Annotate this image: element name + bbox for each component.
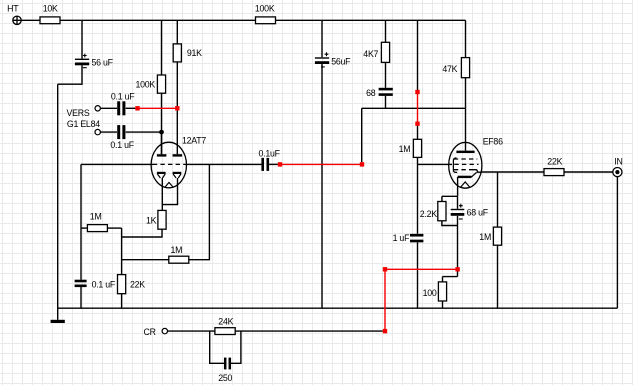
wire 22K R13 to IN terminal xyxy=(564,171,613,173)
node red square R1 right xyxy=(360,162,364,166)
resistor R12 1M xyxy=(493,227,501,245)
svg-text:24K: 24K xyxy=(218,316,233,326)
svg-text:VERS: VERS xyxy=(67,108,90,118)
wire CR terminal to 24K xyxy=(168,330,215,332)
wire 250 cap right bracket xyxy=(231,331,241,363)
svg-text:1 uF: 1 uF xyxy=(393,233,410,243)
wire 47K bottom to anode node xyxy=(465,78,467,109)
terminal CR xyxy=(162,328,167,333)
wire 250 cap left bracket xyxy=(210,331,224,363)
wire 100 resistor bottom to ground rail xyxy=(442,301,444,308)
U2 grid g3 dashed xyxy=(454,169,469,171)
wire 56uF C1 bottom L to left rail xyxy=(58,65,82,84)
red net wires xyxy=(138,92,458,331)
terminal HT xyxy=(13,16,21,24)
svg-text:1M: 1M xyxy=(90,212,102,222)
wire 12AT7 grid to left xyxy=(81,163,153,165)
wire left vertical to ground rail xyxy=(57,84,59,308)
node A junction dot xyxy=(159,130,164,135)
svg-text:0.1 uF: 0.1 uF xyxy=(110,140,134,150)
U2 g3 out step xyxy=(469,170,482,173)
wire 68uF bottom xyxy=(457,216,459,226)
wire drop to 56uF C1 xyxy=(81,20,83,58)
svg-text:1M: 1M xyxy=(171,245,183,255)
resistor R11 2.2K xyxy=(438,202,446,221)
svg-text:10K: 10K xyxy=(43,4,58,14)
capacitor C9 1uF xyxy=(410,235,423,241)
wire cathode to 68uF top xyxy=(457,196,459,209)
capacitor C10 250 xyxy=(225,358,230,370)
U2 shield bracket xyxy=(453,158,457,173)
svg-text:100K: 100K xyxy=(136,80,156,90)
wire G1EL84 terminal to cap CB xyxy=(100,131,117,133)
svg-text:12AT7: 12AT7 xyxy=(182,136,206,146)
wire EF86 output to 22K xyxy=(482,171,544,173)
wire cathode node down to red junction xyxy=(457,226,459,277)
capacitor C2 56uF xyxy=(315,52,329,67)
wire cap CA to red R3 stub xyxy=(126,107,136,109)
svg-text:1M: 1M xyxy=(479,232,491,242)
wire 1uF bottom to ground rail xyxy=(417,242,419,308)
wire 1M R8 right lead xyxy=(107,227,121,229)
wire drop to 100K R3 xyxy=(161,20,163,75)
wire 91K bottom to 12AT7 right anode xyxy=(176,62,178,154)
wire jog to 100 resistor xyxy=(443,277,458,282)
capacitor C4 0.1uF xyxy=(119,101,124,115)
U2 grid g2 dashed xyxy=(454,158,478,160)
U1 right cathode xyxy=(173,172,182,174)
wire VERS terminal to cap CA xyxy=(100,107,117,109)
node red square R3 left xyxy=(135,106,139,110)
pentode U2 EF86 xyxy=(449,142,482,188)
U2 heater xyxy=(461,182,470,187)
wire red R1 coupling to feedback xyxy=(280,163,362,165)
capacitor C7 0.1uF xyxy=(75,281,87,286)
svg-text:0.1 uF: 0.1 uF xyxy=(92,279,116,289)
svg-text:1M: 1M xyxy=(399,144,411,154)
svg-text:CR: CR xyxy=(144,327,156,337)
resistor R13 22K xyxy=(544,169,564,176)
node red square R3 right xyxy=(175,106,179,110)
wire 4K7 bottom to 68pF cap xyxy=(385,62,387,87)
node red square R1 left xyxy=(278,162,282,166)
wire red R3 VERS cap to anode line xyxy=(138,107,178,109)
svg-text:IN: IN xyxy=(614,156,622,166)
red junction squares xyxy=(135,90,460,333)
svg-text:G1 EL84: G1 EL84 xyxy=(67,119,100,129)
node red square 1M line top xyxy=(415,90,419,94)
resistor R5 4K7 xyxy=(381,42,389,62)
ground rail xyxy=(58,307,618,309)
wire cap CB to junction node A xyxy=(126,131,162,133)
wire 68pF bottom to feedback node xyxy=(385,96,387,108)
wire 1K bottom jog to 22K line xyxy=(122,229,162,237)
wire 100K R3 bottom to 12AT7 left anode xyxy=(161,93,163,154)
U1 left anode xyxy=(161,132,163,154)
U1 right anode xyxy=(173,154,183,156)
terminal VERS xyxy=(95,106,100,111)
wire 1M R6 bottom through grid junction xyxy=(417,157,419,233)
U1 grid dashed xyxy=(153,163,185,165)
wire red CR to cathode L xyxy=(385,269,458,331)
wire 22K R10 bottom to ground rail xyxy=(121,294,123,309)
wire top rail from HT to 10K xyxy=(22,19,40,21)
svg-text:56uF: 56uF xyxy=(331,57,351,67)
node red square cathode right xyxy=(455,267,459,271)
U1 heater xyxy=(165,182,174,187)
wire top rail 100K to right end xyxy=(276,19,466,21)
svg-text:68: 68 xyxy=(366,88,376,98)
resistor R14 1K xyxy=(158,210,166,229)
U2 grid g1 dashed xyxy=(454,163,478,165)
U1 left cathode xyxy=(157,172,166,174)
wire ground stem xyxy=(57,308,59,320)
capacitor C5 0.1uF xyxy=(119,125,124,139)
wire cathode branch to 2.2K xyxy=(442,196,458,201)
resistor R4 91K xyxy=(173,44,181,62)
wire 12AT7 output to coupling cap xyxy=(185,163,261,165)
node red square cathode corner xyxy=(383,267,387,271)
resistor R2 100K (series) xyxy=(256,17,276,24)
capacitor C1 56uF xyxy=(75,54,89,68)
resistor R7 1M xyxy=(413,139,421,157)
svg-text:0.1uF: 0.1uF xyxy=(259,148,281,158)
wire output junction to 1M R12 xyxy=(497,172,499,227)
triode U1 12AT7 xyxy=(151,132,186,188)
wire 22K line vertical xyxy=(121,228,123,275)
terminal G1EL84 xyxy=(95,129,100,134)
wire EF86 grid from 1M line xyxy=(418,163,453,165)
wire 0.1uF C7 bottom to ground rail xyxy=(80,287,82,308)
svg-text:EF86: EF86 xyxy=(483,136,503,146)
wire 1M R9 left to 22K line xyxy=(122,259,169,261)
wire drop to 4K7 R5 xyxy=(385,20,387,42)
svg-text:0.1 uF: 0.1 uF xyxy=(111,92,135,102)
node red square 1M line bottom xyxy=(415,122,419,126)
wire 1M R12 bottom to ground rail xyxy=(497,245,499,308)
svg-text:56 uF: 56 uF xyxy=(92,57,114,67)
wire drop to 91K R4 xyxy=(176,20,178,44)
U2 cathode bar xyxy=(458,176,472,178)
wire 24K to red feedback xyxy=(235,330,383,332)
wire rail right end down to 47K xyxy=(465,20,467,57)
wire grid left vertical down xyxy=(80,164,82,279)
wire 2.2K bottom jog xyxy=(442,221,458,226)
wire red-to-1M black part xyxy=(417,126,419,139)
svg-text:4K7: 4K7 xyxy=(363,49,378,59)
resistor R3 100K xyxy=(157,75,165,93)
resistor R10 22K xyxy=(118,275,126,294)
capacitor C8 68uF xyxy=(451,204,465,219)
wire 1M R8 left lead xyxy=(81,227,87,229)
wire red segment on 1M line xyxy=(417,92,419,124)
terminal IN xyxy=(613,168,622,177)
wire drop to 1M R6 black upper part xyxy=(417,20,419,92)
resistor R1 10K xyxy=(40,17,60,24)
capacitor C3 68 xyxy=(379,89,393,95)
svg-text:HT: HT xyxy=(7,4,19,14)
wire top rail 10K to 100K xyxy=(60,19,256,21)
resistor R9 1M xyxy=(169,256,189,263)
resistor R16 24K xyxy=(215,328,235,335)
wire EF86 cathode lead down xyxy=(457,177,459,196)
svg-text:22K: 22K xyxy=(547,156,562,166)
wire drop 56uF C2 to ground rail xyxy=(321,20,323,308)
wire 12AT7 cathode join xyxy=(162,178,177,210)
svg-text:22K: 22K xyxy=(130,279,145,289)
wire feedback horizontal node xyxy=(362,107,466,109)
svg-text:100: 100 xyxy=(423,288,437,298)
svg-text:47K: 47K xyxy=(442,64,457,74)
svg-text:1K: 1K xyxy=(146,215,157,225)
svg-text:100K: 100K xyxy=(255,4,275,14)
svg-text:2.2K: 2.2K xyxy=(420,209,437,219)
ground symbol xyxy=(51,320,65,323)
wire EF86 anode lead xyxy=(465,108,467,150)
capacitor C6 0.1uF coupling xyxy=(263,158,268,171)
svg-text:91K: 91K xyxy=(187,48,202,58)
wire IN terminal down to ground rail xyxy=(616,177,618,308)
resistor R8 1M xyxy=(87,225,107,232)
svg-text:250: 250 xyxy=(218,373,232,383)
wire output junction down xyxy=(189,164,210,259)
resistor R15 100 xyxy=(438,282,446,301)
wire feedback node down to red junction xyxy=(361,108,363,162)
U2 anode bar xyxy=(456,151,474,153)
resistor R6 47K xyxy=(461,58,469,78)
node red square CR wire xyxy=(383,329,387,333)
wire coupling cap to red R1 stub xyxy=(269,163,278,165)
svg-text:68 uF: 68 uF xyxy=(467,208,489,218)
